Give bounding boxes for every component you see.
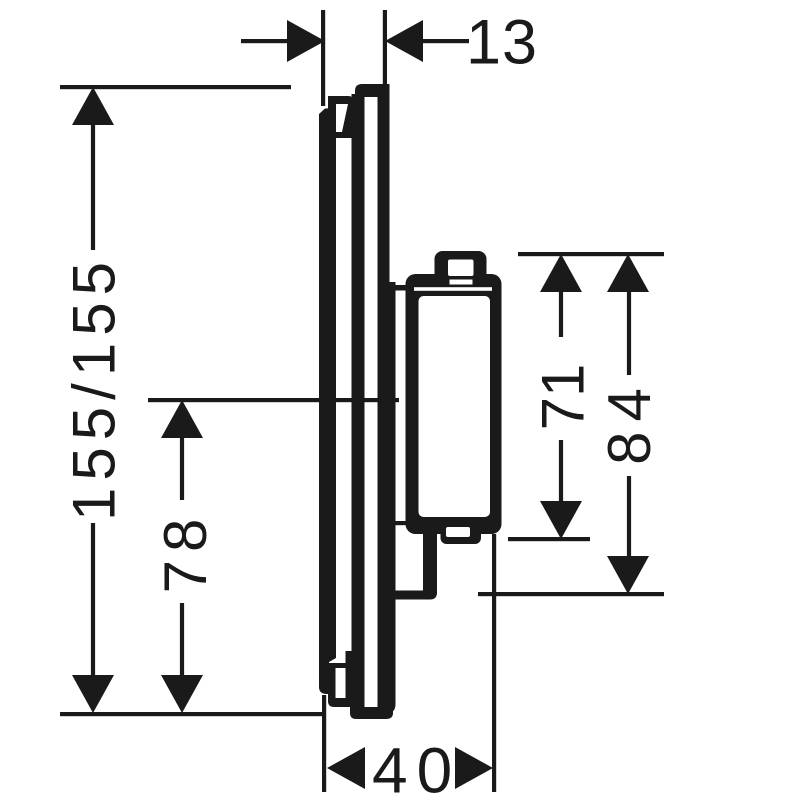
dim 71/84: top extension line <box>518 252 664 256</box>
plate bottom clip left wall <box>328 663 336 701</box>
dim 84: top arrow <box>607 254 649 292</box>
connector plate-to-body top <box>388 285 406 291</box>
valve top knob window (white) <box>448 260 474 277</box>
dim 84: bottom extension line <box>478 592 664 596</box>
svg-text:84: 84 <box>596 378 663 465</box>
valve body top seam (white) <box>414 287 492 291</box>
dim 13: left tail line <box>241 39 289 43</box>
svg-text:155/155: 155/155 <box>61 255 128 521</box>
dim 155/155: lower dim line segment <box>91 523 95 677</box>
plate front bar A <box>319 108 336 694</box>
dim 71: bottom arrow <box>540 501 582 539</box>
plate top clip box <box>328 96 354 138</box>
dim 71: bottom extension line <box>508 537 590 541</box>
valve top knob <box>435 251 487 282</box>
down tube right wall <box>423 534 437 594</box>
dim 155/155: top extension line <box>60 85 291 89</box>
dim 13: right tail line <box>421 39 469 43</box>
dim 40: right arrow <box>455 747 493 789</box>
plate bottom clip divider <box>328 663 346 668</box>
dim 155/155: top arrow <box>72 87 114 125</box>
svg-text:13: 13 <box>466 8 538 78</box>
dim 40: right extension line <box>492 534 496 792</box>
carrier bar B <box>352 94 365 708</box>
dim 71: upper dim line segment <box>559 290 563 337</box>
svg-text:71: 71 <box>530 364 597 431</box>
dim 78: upper dim line segment <box>180 436 184 500</box>
carrier bar C upper <box>378 84 390 284</box>
plate bottom clip right lead-in <box>346 651 353 707</box>
dim 155/155: bottom arrow <box>72 675 114 713</box>
dim 78: top arrow <box>161 400 203 438</box>
carrier bottom band <box>350 707 393 719</box>
valve bottom tab window (white) <box>446 527 470 537</box>
dim 40: left arrow <box>327 747 365 789</box>
valve top knob base seam (white) <box>450 280 473 285</box>
dim 71: lower dim line segment <box>559 440 563 503</box>
down tube bottom edge <box>384 591 437 600</box>
carrier bar C lower <box>378 282 396 714</box>
valve bottom tab <box>441 525 482 544</box>
dim 84: bottom arrow <box>607 556 649 594</box>
dim 155/155: upper dim line segment <box>91 122 95 250</box>
dim 71: top arrow <box>540 254 582 292</box>
dim 78: bottom arrow <box>161 675 203 713</box>
dim 13: left arrow <box>287 20 325 62</box>
dim 78: lower dim line segment <box>180 603 184 677</box>
plate bottom clip bottom edge <box>328 698 352 707</box>
plate top clip window (white) <box>336 104 348 132</box>
shared bottom extension line for 155 and 78 <box>60 712 326 716</box>
dim 78: top extension line <box>148 398 399 402</box>
carrier top cap <box>355 84 390 97</box>
svg-text:40: 40 <box>372 735 461 800</box>
dim 13: right arrow <box>385 20 423 62</box>
dim 13: right extension line <box>383 10 387 84</box>
dim 13: left extension line <box>321 10 325 106</box>
dim 84: upper dim line segment <box>627 290 631 375</box>
dim 40: left extension line <box>322 695 326 792</box>
valve body outline <box>406 274 502 534</box>
dim 84: lower dim line segment <box>627 476 631 558</box>
valve cartridge interior (white) <box>419 296 491 517</box>
svg-text:78: 78 <box>152 511 219 594</box>
connector plate-to-body bottom <box>395 521 406 525</box>
